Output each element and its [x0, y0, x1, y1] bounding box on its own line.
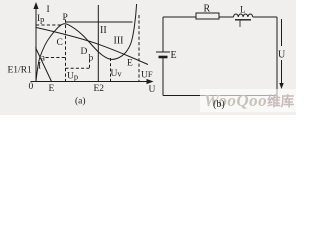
svg-text:UF: UF	[141, 69, 153, 81]
svg-text:0: 0	[29, 82, 34, 92]
svg-text:I: I	[239, 19, 242, 29]
watermark text	[204, 90, 294, 111]
svg-text:U: U	[278, 50, 286, 61]
y-axis I	[35, 6, 37, 82]
wire left vertical upper	[162, 17, 164, 52]
tunnel diode N-curve	[36, 4, 137, 81]
svg-text:U: U	[149, 85, 156, 95]
svg-text:E: E	[49, 84, 55, 94]
svg-text:Ip: Ip	[37, 14, 44, 24]
svg-text:I: I	[47, 5, 50, 15]
wire right vertical	[276, 17, 278, 96]
battery E short plate	[159, 56, 168, 59]
svg-text:II: II	[100, 25, 107, 36]
svg-text:Uv: Uv	[111, 69, 123, 80]
x-axis arrowhead	[147, 79, 154, 84]
watermark box	[200, 89, 296, 112]
graph text labels	[8, 5, 156, 107]
svg-text:L: L	[240, 5, 246, 15]
y-axis arrowhead	[33, 2, 38, 9]
dashed horizontal at Iv level	[66, 67, 90, 69]
load line III (shallow long)	[36, 28, 148, 65]
battery E long plate	[156, 51, 170, 53]
inductor L coil	[234, 14, 253, 17]
load line vertical at E2	[97, 5, 99, 82]
svg-text:I: I	[38, 62, 41, 72]
svg-text:III: III	[114, 36, 124, 47]
dashed vertical at UF	[138, 15, 140, 81]
svg-text:Up: Up	[67, 72, 78, 82]
dashed Ip level line	[36, 24, 62, 26]
dashed step below point b	[89, 60, 91, 69]
x-axis U	[31, 81, 150, 83]
svg-text:R: R	[204, 4, 211, 15]
inductor core bar	[235, 19, 251, 21]
wire top left	[163, 16, 196, 18]
wire left vertical lower	[162, 58, 164, 96]
svg-text:E: E	[127, 59, 133, 69]
load line I (steep, E1/R1 to E)	[36, 48, 52, 82]
svg-text:E: E	[171, 50, 177, 61]
resistor R body	[196, 13, 219, 19]
dashed vertical at Uv	[110, 58, 112, 81]
svg-text:(a): (a)	[75, 96, 86, 107]
svg-text:E2: E2	[94, 84, 105, 94]
svg-text:P: P	[63, 13, 68, 23]
wire top right	[253, 16, 277, 18]
wire between R and L	[219, 16, 234, 18]
svg-text:b: b	[89, 54, 94, 64]
voltage U annotation line upper	[281, 19, 283, 46]
dashed horizontal at point a level	[46, 57, 66, 59]
wire bottom	[163, 95, 277, 97]
circuit labels	[171, 4, 287, 62]
dashed vertical at Up	[65, 20, 67, 82]
svg-text:E1/R1: E1/R1	[8, 66, 33, 76]
caption (b)	[213, 99, 225, 110]
voltage U annotation line lower with arrow	[281, 60, 283, 85]
svg-text:a: a	[41, 54, 46, 64]
svg-text:D: D	[81, 47, 88, 57]
load line II horizontal (constant current)	[66, 21, 133, 23]
U annotation arrowhead	[279, 83, 283, 89]
svg-text:C: C	[57, 38, 63, 48]
